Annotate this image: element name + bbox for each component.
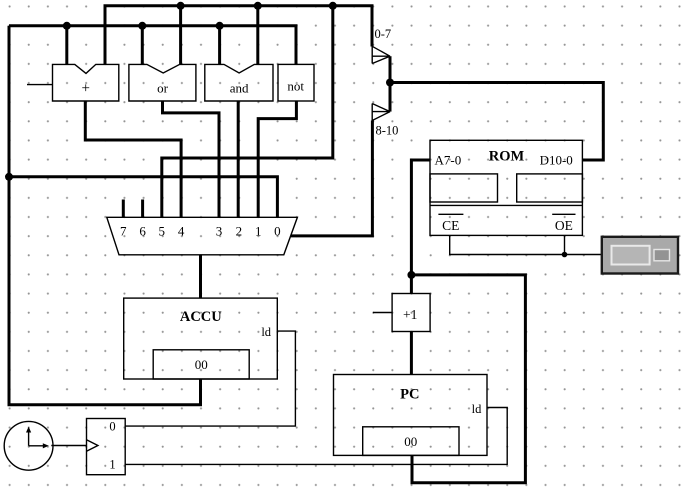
svg-text:not: not (287, 79, 304, 94)
wire mux output to ACCU (199, 255, 202, 298)
junction OE display wire (562, 252, 568, 258)
wire ROM CE OE to display (450, 235, 602, 254)
svg-text:CE: CE (442, 218, 459, 233)
divider FF1 (87, 419, 126, 475)
wire bus1 operand bus (top) (105, 6, 372, 65)
wire and right input (256, 6, 259, 65)
wire or right input (179, 6, 182, 65)
wire adder left input (65, 26, 68, 65)
ALU adder U1 (53, 64, 119, 101)
svg-text:A7-0: A7-0 (435, 153, 462, 168)
svg-text:PC: PC (400, 387, 419, 403)
clock CLK (4, 421, 53, 470)
value 00 (363, 427, 459, 456)
svg-text:+: + (81, 81, 89, 97)
wire not output to mux input 1 (258, 101, 296, 217)
wire accu feedback left loop (9, 26, 201, 405)
svg-text:+1: +1 (403, 307, 417, 322)
svg-text:1: 1 (109, 458, 115, 472)
svg-text:OE: OE (555, 218, 573, 233)
register PC (334, 375, 488, 456)
svg-text:and: and (230, 81, 249, 96)
wire adder carry stub (27, 84, 53, 86)
svg-text:ACCU: ACCU (180, 309, 222, 325)
splitter S1 (372, 27, 398, 138)
junction or left pin (138, 22, 146, 30)
wire mux input 6 stub (141, 200, 144, 218)
junction or right pin (177, 2, 185, 10)
svg-text:7: 7 (120, 224, 127, 239)
wire or output to mux input 3 (163, 101, 220, 217)
rom cell left (430, 174, 498, 202)
wire and output to mux input 2 (237, 101, 240, 217)
wire mux input 7 stub (122, 200, 125, 218)
wire or left input (141, 26, 144, 65)
ALU and U3 (205, 64, 273, 101)
svg-text:1: 1 (255, 224, 262, 239)
svg-text:0: 0 (274, 224, 281, 239)
wire divider 1 to PC ld (125, 408, 507, 465)
svg-text:2: 2 (236, 224, 243, 239)
svg-text:or: or (157, 81, 169, 96)
junction bus1 mux5 branch (329, 2, 337, 10)
svg-text:0-7: 0-7 (375, 27, 392, 41)
rom divider (430, 204, 582, 206)
wire accu to mux input 0 (9, 177, 277, 218)
display D1 (602, 237, 678, 274)
junction accu feedback mux0 branch (5, 173, 13, 181)
junction PC address branch (407, 271, 415, 279)
wire PC feedback loop (411, 275, 525, 483)
wire incrementer stub (373, 312, 392, 314)
wire incrementer output to PC (410, 332, 413, 375)
rom cell right (517, 174, 583, 202)
svg-text:ROM: ROM (489, 149, 525, 165)
svg-text:3: 3 (216, 224, 223, 239)
wire bus1 to mux input 5 (162, 6, 333, 218)
svg-text:5: 5 (159, 224, 166, 239)
ALU not U4 (278, 64, 314, 101)
wire bus2 accumulator bus (9, 26, 296, 65)
wire ROM A7-0 address (411, 160, 430, 294)
svg-text:ld: ld (472, 402, 482, 416)
register ACCU (124, 298, 278, 379)
wire clock to divider (51, 445, 86, 447)
wire adder output to mux input 4 (85, 101, 181, 217)
junction and left pin (216, 22, 224, 30)
svg-text:6: 6 (139, 224, 146, 239)
value 00 (153, 350, 249, 379)
junction splitter output (386, 79, 394, 87)
wire divider 0 to ACCU ld (125, 331, 295, 426)
svg-text:00: 00 (195, 357, 208, 372)
multiplexer MUX1 (107, 217, 298, 255)
wire and left input (218, 26, 221, 65)
incrementer +1 (392, 294, 430, 332)
wire mux select from splitter 8-10 (291, 121, 373, 236)
svg-text:0: 0 (109, 420, 115, 434)
junction adder left pin (63, 22, 71, 30)
ALU or U2 (129, 64, 196, 101)
svg-text:D10-0: D10-0 (540, 153, 573, 168)
svg-text:8-10: 8-10 (376, 124, 399, 138)
ROM U5 (430, 140, 582, 235)
junction and right pin (254, 2, 262, 10)
svg-text:4: 4 (178, 224, 185, 239)
svg-text:ld: ld (261, 325, 271, 339)
svg-text:00: 00 (404, 434, 417, 449)
wire splitter to ROM D10-0 (390, 83, 603, 161)
